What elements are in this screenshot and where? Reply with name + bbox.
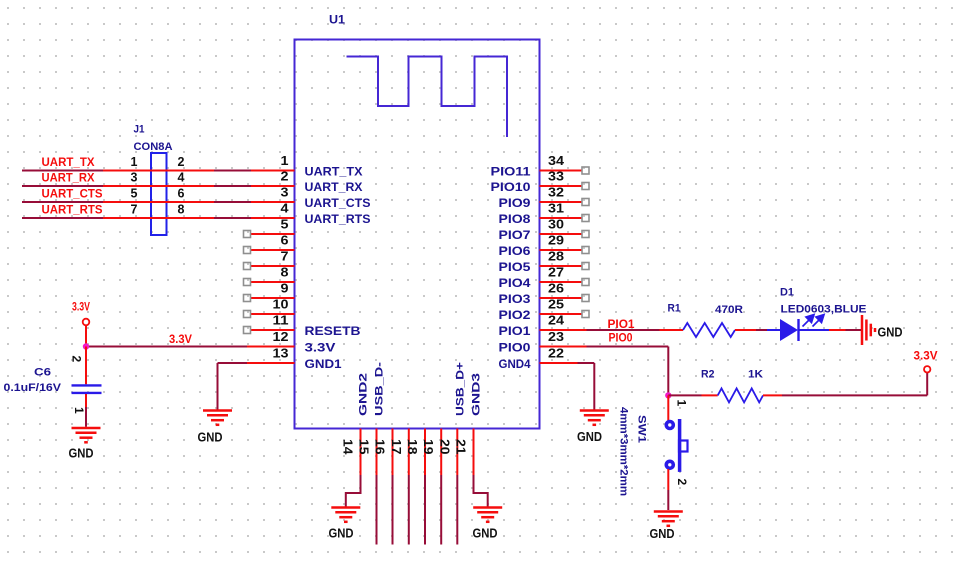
svg-text:GND3: GND3 bbox=[471, 373, 483, 416]
ground label GND bbox=[650, 527, 675, 541]
svg-text:2: 2 bbox=[675, 479, 689, 486]
svg-text:GND: GND bbox=[878, 326, 903, 340]
svg-text:GND2: GND2 bbox=[358, 373, 370, 416]
value 0.1uF/16V bbox=[4, 382, 62, 394]
U1 pin 28 no-connect stub bbox=[540, 263, 590, 270]
SW1 pin number 1 bbox=[675, 400, 689, 407]
U1 right pin numbers 34-22 bbox=[548, 154, 564, 361]
ground label GND bbox=[878, 326, 903, 340]
U1 pin 8 no-connect stub bbox=[244, 279, 295, 286]
ground (below pin 13) bbox=[203, 411, 232, 425]
wire net UART_TX bbox=[22, 170, 295, 172]
svg-text:UART_TX: UART_TX bbox=[42, 157, 95, 169]
svg-text:3.3V: 3.3V bbox=[72, 302, 90, 314]
wire net PIO1 (pin 24) bbox=[540, 329, 660, 331]
svg-text:PIO0: PIO0 bbox=[499, 343, 531, 355]
svg-text:5: 5 bbox=[281, 218, 289, 232]
svg-text:GND: GND bbox=[577, 430, 602, 444]
wire USB/pin 15 bbox=[376, 475, 378, 545]
C6 pin number 1 bbox=[72, 407, 86, 414]
svg-text:PIO2: PIO2 bbox=[499, 310, 531, 322]
svg-text:D1: D1 bbox=[780, 287, 794, 299]
svg-text:1: 1 bbox=[281, 154, 289, 168]
svg-text:1: 1 bbox=[131, 155, 138, 169]
wire USB/pin 17 bbox=[408, 475, 410, 545]
U1 pin 33 no-connect stub bbox=[540, 183, 590, 190]
U1 pin 15 stub bbox=[376, 429, 378, 476]
svg-text:GND1: GND1 bbox=[305, 359, 343, 371]
value 1K bbox=[748, 369, 763, 381]
svg-text:26: 26 bbox=[548, 282, 564, 296]
value 4mm*3mm*2mm bbox=[618, 407, 630, 496]
svg-text:UART_CTS: UART_CTS bbox=[42, 189, 103, 201]
svg-text:UART_RX: UART_RX bbox=[305, 182, 363, 194]
svg-text:1: 1 bbox=[72, 407, 86, 414]
J1 pin numbers bbox=[131, 155, 185, 217]
resistor R1 bbox=[660, 323, 757, 337]
svg-text:0.1uF/16V: 0.1uF/16V bbox=[4, 382, 62, 394]
svg-text:3.3V: 3.3V bbox=[914, 351, 938, 363]
U1 pin 25 no-connect stub bbox=[540, 311, 590, 318]
U1 pin 26 no-connect stub bbox=[540, 295, 590, 302]
svg-text:PIO1: PIO1 bbox=[608, 319, 636, 331]
svg-text:20: 20 bbox=[437, 439, 451, 455]
ground (below pin 21) bbox=[473, 508, 502, 522]
net label PIO1 bbox=[608, 319, 636, 331]
svg-text:UART_CTS: UART_CTS bbox=[305, 198, 371, 210]
U1 pin 29 no-connect stub bbox=[540, 247, 590, 254]
wire (SW1 pin 2 to ground) bbox=[667, 469, 669, 510]
svg-text:J1: J1 bbox=[134, 124, 145, 136]
svg-text:GND: GND bbox=[198, 431, 223, 445]
svg-text:GND: GND bbox=[329, 527, 354, 541]
svg-text:7: 7 bbox=[131, 203, 138, 217]
U1 pin 21 stub bbox=[473, 429, 475, 476]
svg-text:13: 13 bbox=[273, 347, 289, 361]
net label PIO0 bbox=[609, 333, 633, 345]
svg-text:UART_RTS: UART_RTS bbox=[42, 205, 103, 217]
svg-text:15: 15 bbox=[357, 439, 371, 455]
svg-text:4mm*3mm*2mm: 4mm*3mm*2mm bbox=[618, 407, 630, 496]
svg-text:25: 25 bbox=[548, 298, 564, 312]
wire USB/pin 20 bbox=[456, 475, 458, 545]
designator R2 bbox=[701, 369, 715, 381]
wire net PIO0 (pin 23) bbox=[540, 347, 669, 396]
svg-text:28: 28 bbox=[548, 250, 564, 264]
wire USB/pin 18 bbox=[424, 475, 426, 545]
svg-text:2: 2 bbox=[178, 155, 185, 169]
svg-text:17: 17 bbox=[389, 439, 403, 455]
wire GND2 (pin 14) to ground bbox=[346, 475, 361, 507]
wire net UART_CTS bbox=[22, 201, 295, 203]
svg-text:PIO8: PIO8 bbox=[499, 214, 532, 226]
svg-text:GND4: GND4 bbox=[499, 359, 532, 371]
svg-text:9: 9 bbox=[281, 282, 289, 296]
svg-text:8: 8 bbox=[281, 266, 289, 280]
power port 3.3V (right) bbox=[914, 351, 938, 373]
svg-text:5: 5 bbox=[131, 187, 138, 201]
svg-text:19: 19 bbox=[421, 439, 435, 455]
wire to 3.3V port bbox=[782, 373, 927, 396]
switch SW1 (push-button) bbox=[666, 419, 687, 472]
resistor R2 bbox=[702, 388, 783, 402]
U1 left pin numbers 1-13 bbox=[273, 154, 289, 361]
svg-text:GND: GND bbox=[650, 527, 675, 541]
svg-text:PIO10: PIO10 bbox=[491, 182, 531, 194]
designator R1 bbox=[668, 303, 681, 315]
net label UART_RX bbox=[42, 173, 95, 185]
svg-text:UART_TX: UART_TX bbox=[305, 167, 363, 179]
ground (below pin 22) bbox=[580, 411, 609, 425]
value LED0603,BLUE bbox=[781, 304, 867, 316]
svg-text:PIO7: PIO7 bbox=[499, 230, 531, 242]
capacitor C6 bbox=[72, 347, 102, 427]
ground (below SW1) bbox=[654, 512, 683, 526]
svg-text:29: 29 bbox=[548, 234, 564, 248]
ground label GND bbox=[69, 447, 94, 461]
svg-text:31: 31 bbox=[548, 202, 564, 216]
wire GND3 (pin 21) to ground bbox=[474, 475, 488, 507]
svg-text:11: 11 bbox=[273, 314, 289, 328]
U1 right pin names bbox=[491, 167, 532, 372]
U1 bottom pin names bbox=[358, 362, 483, 416]
svg-text:7: 7 bbox=[281, 250, 289, 264]
svg-text:3: 3 bbox=[281, 186, 289, 200]
IC U1 (module body) bbox=[295, 40, 540, 429]
svg-text:PIO3: PIO3 bbox=[499, 294, 531, 306]
svg-text:PIO5: PIO5 bbox=[499, 262, 532, 274]
svg-text:4: 4 bbox=[178, 171, 185, 185]
value 470R bbox=[715, 304, 743, 316]
wire net UART_RTS bbox=[22, 217, 295, 219]
U1 pin 16 stub bbox=[392, 429, 394, 476]
wire net UART_RX bbox=[22, 185, 295, 187]
svg-text:PIO11: PIO11 bbox=[491, 167, 532, 179]
net label UART_CTS bbox=[42, 189, 103, 201]
svg-text:34: 34 bbox=[548, 154, 564, 168]
wire GND1 (pin 13) bbox=[218, 363, 295, 411]
svg-text:32: 32 bbox=[548, 186, 564, 200]
U1 pin 30 no-connect stub bbox=[540, 231, 590, 238]
U1 pin 11 no-connect stub bbox=[244, 327, 295, 334]
U1 pin 18 stub bbox=[424, 429, 426, 476]
C6 pin number 2 bbox=[70, 356, 84, 363]
svg-text:U1: U1 bbox=[329, 13, 345, 27]
U1 pin 31 no-connect stub bbox=[540, 215, 590, 222]
SW1 pin number 2 bbox=[675, 479, 689, 486]
ground label GND bbox=[329, 527, 354, 541]
designator SW1 bbox=[636, 415, 648, 443]
svg-text:PIO6: PIO6 bbox=[499, 246, 531, 258]
U1 pin 14 stub bbox=[360, 429, 362, 476]
svg-text:30: 30 bbox=[548, 218, 564, 232]
U1 pin 20 stub bbox=[456, 429, 458, 476]
junction node PIO0/R2/SW1 bbox=[665, 392, 671, 398]
svg-text:3.3V: 3.3V bbox=[305, 343, 336, 355]
wire bbox=[829, 329, 861, 331]
U1 pin 5 no-connect stub bbox=[244, 231, 295, 238]
ground (right of D1, rotated) bbox=[862, 315, 875, 345]
svg-text:27: 27 bbox=[548, 266, 564, 280]
wire bbox=[668, 394, 701, 396]
svg-text:23: 23 bbox=[548, 330, 564, 344]
ground label GND bbox=[473, 527, 498, 541]
svg-text:R1: R1 bbox=[668, 303, 681, 315]
svg-text:3.3V: 3.3V bbox=[169, 334, 192, 346]
svg-text:CON8A: CON8A bbox=[134, 141, 173, 153]
svg-text:3: 3 bbox=[131, 171, 138, 185]
svg-text:SW1: SW1 bbox=[636, 415, 648, 443]
U1 pin 32 no-connect stub bbox=[540, 199, 590, 206]
svg-text:24: 24 bbox=[548, 314, 564, 328]
LED D1 bbox=[767, 315, 829, 342]
svg-text:10: 10 bbox=[273, 298, 289, 312]
svg-text:33: 33 bbox=[548, 170, 564, 184]
ground (below C6) bbox=[72, 428, 101, 442]
svg-text:1: 1 bbox=[675, 400, 689, 407]
svg-text:4: 4 bbox=[281, 202, 289, 216]
ground (below pin 14) bbox=[331, 508, 360, 522]
U1 pin 6 no-connect stub bbox=[244, 247, 295, 254]
connector J1 bbox=[151, 153, 167, 235]
U1 pin 7 no-connect stub bbox=[244, 263, 295, 270]
designator D1 bbox=[780, 287, 794, 299]
svg-text:PIO9: PIO9 bbox=[499, 198, 531, 210]
svg-text:GND: GND bbox=[473, 527, 498, 541]
svg-text:1K: 1K bbox=[748, 369, 763, 381]
U1 pin 27 no-connect stub bbox=[540, 279, 590, 286]
value CON8A bbox=[134, 141, 173, 153]
svg-text:PIO1: PIO1 bbox=[499, 326, 532, 338]
ground label GND bbox=[198, 431, 223, 445]
ground label GND bbox=[577, 430, 602, 444]
wire (junction to SW1 pin 1) bbox=[667, 395, 669, 421]
svg-text:12: 12 bbox=[273, 330, 289, 344]
svg-text:2: 2 bbox=[281, 170, 289, 184]
svg-text:6: 6 bbox=[281, 234, 289, 248]
svg-text:470R: 470R bbox=[715, 304, 743, 316]
svg-text:USB_D-: USB_D- bbox=[374, 362, 386, 416]
svg-text:R2: R2 bbox=[701, 369, 715, 381]
power port 3.3V (left) bbox=[72, 302, 90, 347]
svg-text:PIO4: PIO4 bbox=[499, 278, 532, 290]
net label UART_RTS bbox=[42, 205, 103, 217]
net label UART_TX bbox=[42, 157, 95, 169]
svg-text:8: 8 bbox=[178, 203, 185, 217]
svg-text:GND: GND bbox=[69, 447, 94, 461]
svg-text:UART_RTS: UART_RTS bbox=[305, 214, 371, 226]
wire USB/pin 16 bbox=[392, 475, 394, 545]
svg-text:22: 22 bbox=[548, 347, 564, 361]
U1 bottom pin numbers 14-21 bbox=[341, 439, 468, 455]
svg-text:16: 16 bbox=[373, 439, 387, 455]
designator C6 bbox=[34, 367, 51, 379]
U1 pin 34 no-connect stub bbox=[540, 167, 590, 174]
U1 pin 17 stub bbox=[408, 429, 410, 476]
svg-text:LED0603,BLUE: LED0603,BLUE bbox=[781, 304, 867, 316]
U1 left pin names bbox=[305, 167, 371, 372]
U1 pin 9 no-connect stub bbox=[244, 295, 295, 302]
U1 pin 10 no-connect stub bbox=[244, 311, 295, 318]
wire net 3.3V to U1 pin 12 bbox=[86, 346, 295, 348]
svg-text:18: 18 bbox=[405, 439, 419, 455]
wire GND4 (pin 22) bbox=[540, 363, 595, 411]
svg-text:PIO0: PIO0 bbox=[609, 333, 633, 345]
wire bbox=[756, 329, 767, 331]
designator U1 bbox=[329, 13, 345, 27]
svg-text:UART_RX: UART_RX bbox=[42, 173, 95, 185]
U1 pin 19 stub bbox=[440, 429, 442, 476]
wire USB/pin 19 bbox=[440, 475, 442, 545]
svg-text:C6: C6 bbox=[34, 367, 51, 379]
junction node 3.3V/C6 bbox=[83, 343, 89, 349]
svg-text:14: 14 bbox=[341, 439, 355, 455]
svg-text:USB_D+: USB_D+ bbox=[454, 362, 466, 416]
svg-text:21: 21 bbox=[454, 439, 468, 455]
designator J1 bbox=[134, 124, 145, 136]
svg-text:RESETB: RESETB bbox=[305, 326, 361, 338]
svg-text:2: 2 bbox=[70, 356, 84, 363]
svg-text:6: 6 bbox=[178, 187, 185, 201]
net label 3.3V bbox=[169, 334, 192, 346]
